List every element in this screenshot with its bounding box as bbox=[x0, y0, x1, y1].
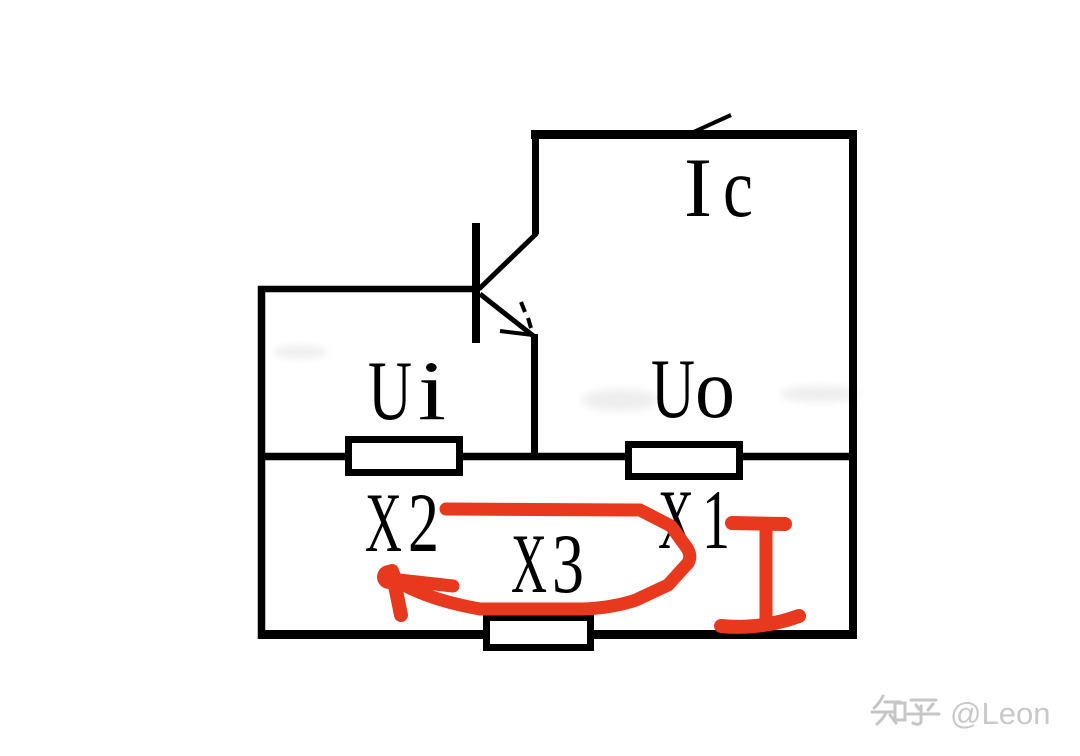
svg-text:I: I bbox=[684, 141, 712, 235]
svg-text:i: i bbox=[418, 344, 446, 438]
svg-text:X: X bbox=[365, 476, 402, 570]
svg-text:X: X bbox=[511, 517, 547, 611]
svg-text:U: U bbox=[651, 342, 695, 436]
svg-text:@Leon: @Leon bbox=[950, 696, 1050, 731]
svg-text:U: U bbox=[368, 344, 412, 438]
svg-text:3: 3 bbox=[552, 517, 584, 611]
svg-text:c: c bbox=[723, 141, 753, 235]
svg-text:2: 2 bbox=[408, 476, 439, 570]
svg-text:o: o bbox=[695, 342, 735, 436]
